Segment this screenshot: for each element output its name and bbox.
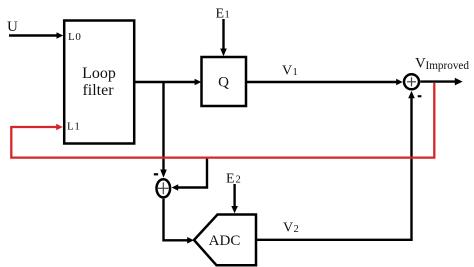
svg-text:ADC: ADC bbox=[209, 233, 241, 249]
wire lower summer output to ADC bbox=[164, 199, 194, 244]
svg-text:V: V bbox=[415, 56, 426, 72]
svg-text:Improved: Improved bbox=[426, 60, 470, 72]
block Loop filter bbox=[64, 21, 134, 144]
svg-text:1: 1 bbox=[293, 67, 298, 78]
wire from red line down into lower summer bbox=[172, 158, 207, 191]
svg-text:U: U bbox=[7, 19, 18, 35]
svg-text:Q: Q bbox=[218, 75, 229, 91]
wire output V improved bbox=[420, 78, 462, 86]
svg-text:1: 1 bbox=[225, 10, 230, 21]
svg-text:L1: L1 bbox=[67, 121, 80, 133]
wire branch down to lower summer bbox=[160, 82, 167, 178]
minus sign at top input bbox=[154, 173, 158, 175]
red feedback wire bbox=[11, 83, 434, 158]
wire E2 into ADC bbox=[231, 184, 238, 213]
wire loop filter output to Q bbox=[134, 79, 201, 86]
svg-text:V: V bbox=[283, 221, 293, 236]
wire V1: Q to right summer bbox=[246, 79, 403, 85]
svg-text:V: V bbox=[282, 64, 292, 79]
block Q (quantizer) bbox=[202, 57, 247, 106]
minus sign at V2 input bbox=[418, 95, 422, 97]
svg-text:filter: filter bbox=[82, 82, 114, 99]
summing junction lower adder bbox=[157, 179, 171, 197]
svg-text:E: E bbox=[226, 172, 235, 187]
block ADC bbox=[194, 215, 256, 266]
wire U input arrow bbox=[9, 32, 63, 39]
summing junction U1 (output adder) bbox=[404, 74, 419, 89]
svg-text:Loop: Loop bbox=[82, 65, 116, 82]
red arrowhead into L1 bbox=[56, 124, 63, 131]
svg-text:L0: L0 bbox=[68, 31, 81, 43]
svg-text:2: 2 bbox=[236, 175, 241, 186]
wire V2: ADC to right summer bbox=[256, 91, 415, 240]
svg-text:2: 2 bbox=[294, 224, 299, 235]
wire E1 into Q bbox=[220, 19, 227, 56]
